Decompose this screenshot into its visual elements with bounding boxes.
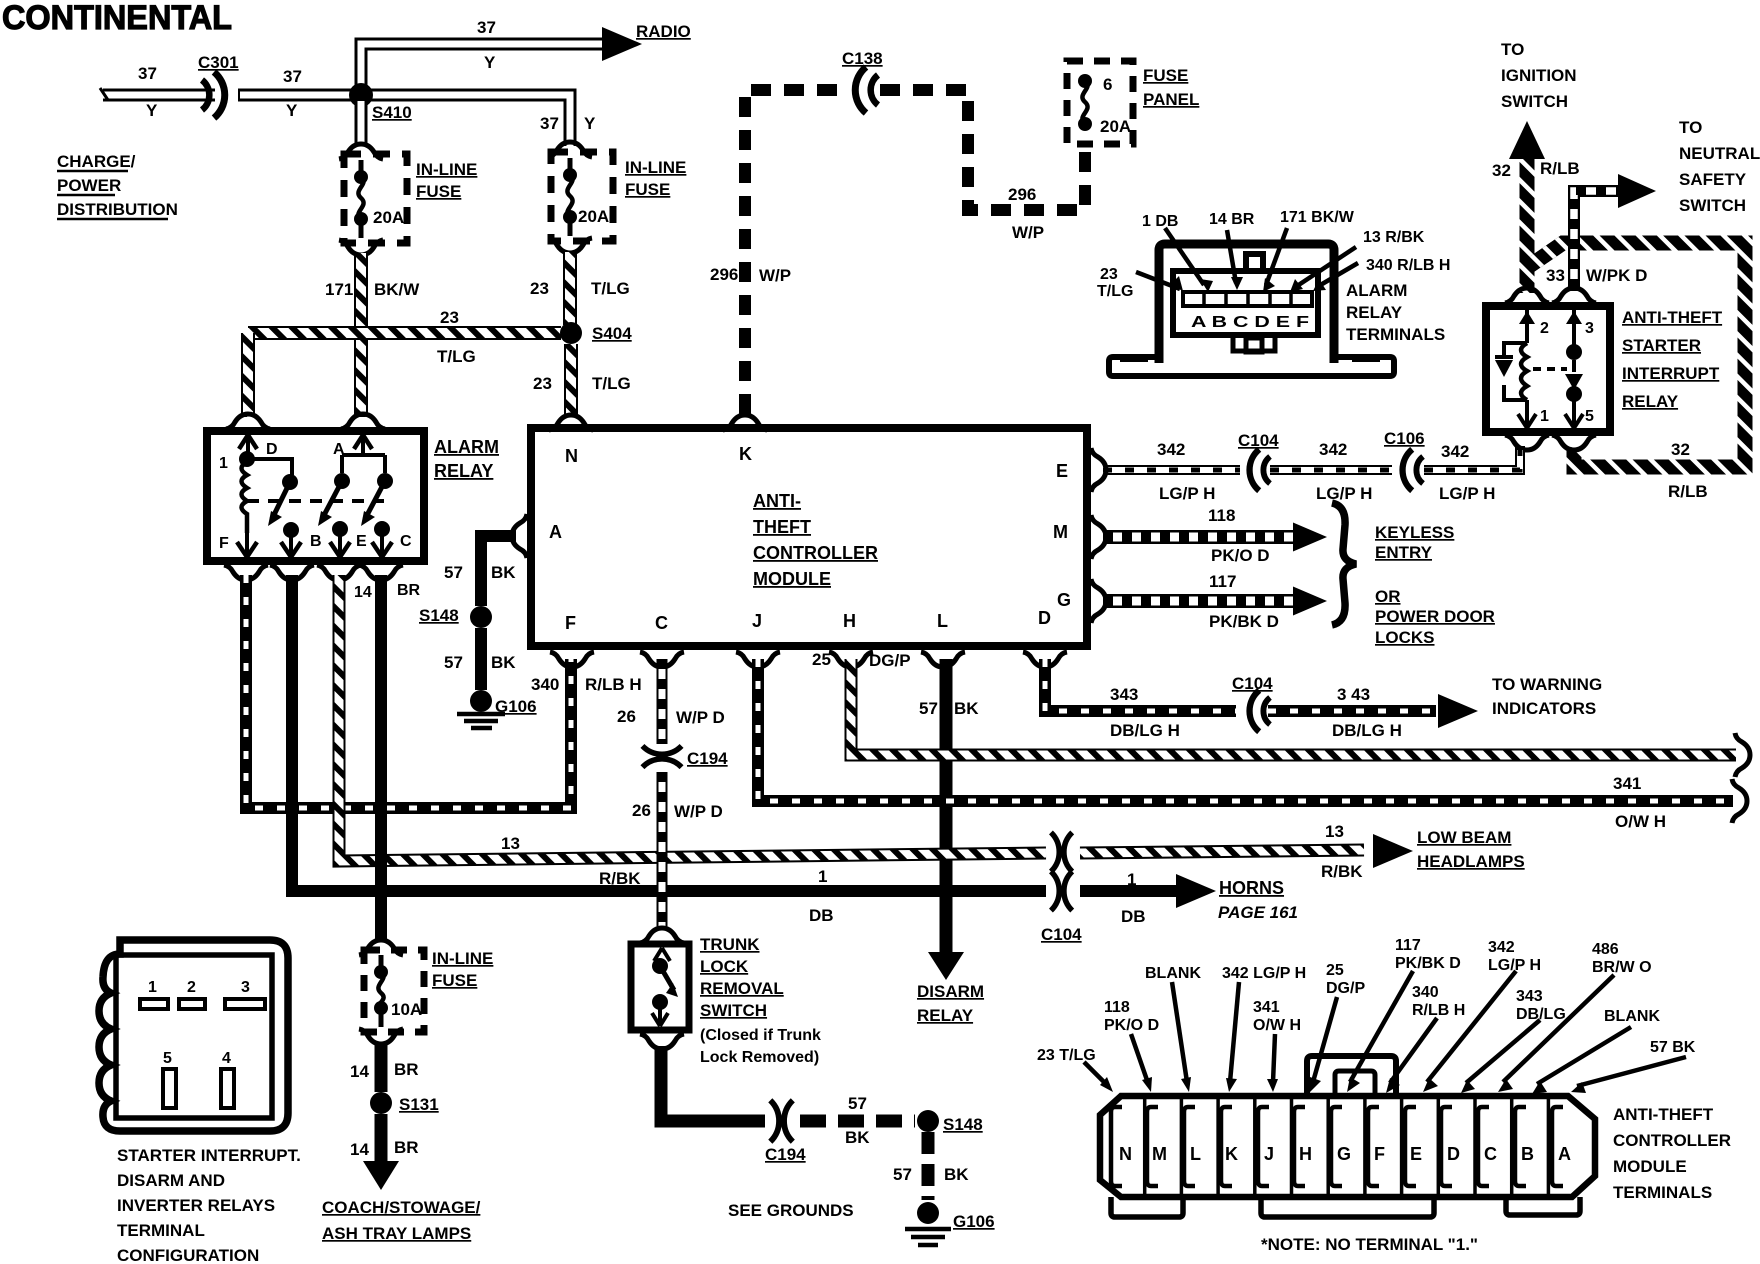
svg-text:342 LG/P H: 342 LG/P H bbox=[1222, 965, 1306, 982]
wire 14 BR fuse to S131 bbox=[375, 1044, 388, 1092]
svg-text:ANTI-THEFT: ANTI-THEFT bbox=[1613, 1105, 1714, 1124]
svg-text:4: 4 bbox=[222, 1050, 231, 1067]
svg-text:26: 26 bbox=[632, 801, 651, 820]
svg-text:5: 5 bbox=[163, 1050, 172, 1067]
terminal arrows bbox=[1084, 971, 1686, 1086]
svg-text:COACH/STOWAGE/: COACH/STOWAGE/ bbox=[322, 1198, 481, 1217]
svg-text:118: 118 bbox=[1208, 506, 1235, 525]
svg-text:343: 343 bbox=[1110, 685, 1138, 704]
svg-text:IGNITION: IGNITION bbox=[1501, 66, 1577, 85]
svg-text:R/LB H: R/LB H bbox=[1412, 1002, 1465, 1019]
svg-text:RELAY: RELAY bbox=[1346, 303, 1403, 322]
svg-text:117: 117 bbox=[1209, 572, 1236, 591]
svg-text:SWITCH: SWITCH bbox=[1679, 196, 1746, 215]
wire 33 W/PK D to neutral safety switch bbox=[1574, 174, 1656, 291]
wire 296 W/P C138 to fuse panel bbox=[880, 90, 1085, 210]
svg-text:G106: G106 bbox=[953, 1212, 995, 1231]
svg-text:6: 6 bbox=[1103, 75, 1112, 94]
svg-text:THEFT: THEFT bbox=[753, 517, 811, 537]
svg-text:S131: S131 bbox=[399, 1095, 439, 1114]
ground G106 bbox=[457, 714, 505, 728]
in-line fuse F3 10A bbox=[359, 940, 424, 1044]
svg-text:32: 32 bbox=[1492, 161, 1511, 180]
svg-text:342: 342 bbox=[1157, 440, 1185, 459]
svg-text:TERMINAL: TERMINAL bbox=[117, 1221, 205, 1240]
splice S410 bbox=[349, 83, 373, 107]
svg-text:C: C bbox=[1484, 1144, 1497, 1164]
svg-text:10A: 10A bbox=[391, 1000, 422, 1019]
svg-text:INTERRUPT: INTERRUPT bbox=[1622, 364, 1720, 383]
svg-text:5: 5 bbox=[1585, 408, 1594, 425]
svg-text:G: G bbox=[1337, 1144, 1351, 1164]
svg-text:RELAY: RELAY bbox=[1622, 392, 1679, 411]
wire 1 DB to horns arrow bbox=[1080, 874, 1216, 908]
svg-text:LG/P H: LG/P H bbox=[1159, 484, 1215, 503]
svg-text:14: 14 bbox=[354, 584, 372, 601]
svg-text:ENTRY: ENTRY bbox=[1375, 543, 1433, 562]
wire alarm relay F to module F 340 R/LB H bbox=[246, 575, 571, 808]
svg-text:23 T/LG: 23 T/LG bbox=[1037, 1047, 1096, 1064]
svg-text:C104: C104 bbox=[1232, 674, 1273, 693]
connector C194 (26) bbox=[642, 746, 681, 767]
svg-text:C194: C194 bbox=[687, 749, 728, 768]
svg-text:G106: G106 bbox=[495, 697, 537, 716]
svg-text:BK: BK bbox=[944, 1165, 969, 1184]
svg-text:13: 13 bbox=[501, 834, 520, 853]
svg-text:Y: Y bbox=[286, 101, 298, 120]
svg-text:POWER DOOR: POWER DOOR bbox=[1375, 607, 1495, 626]
wire 32 R/LB loop pin 5 to ignition feed bbox=[1528, 243, 1745, 467]
svg-text:HORNS: HORNS bbox=[1219, 878, 1284, 898]
svg-text:1: 1 bbox=[1540, 408, 1549, 425]
svg-text:S404: S404 bbox=[592, 324, 632, 343]
terminal pointer labels bbox=[1136, 228, 1358, 289]
svg-text:Y: Y bbox=[584, 114, 596, 133]
svg-text:C106: C106 bbox=[1384, 429, 1425, 448]
svg-text:CONTROLLER: CONTROLLER bbox=[1613, 1131, 1731, 1150]
svg-text:32: 32 bbox=[1671, 440, 1690, 459]
svg-text:LOCK: LOCK bbox=[700, 957, 749, 976]
svg-text:PAGE 161: PAGE 161 bbox=[1218, 903, 1298, 922]
svg-text:BK: BK bbox=[954, 699, 979, 718]
coil + diode branch bbox=[1525, 332, 1529, 428]
svg-text:SWITCH: SWITCH bbox=[1501, 92, 1568, 111]
alarm relay terminals pictorial bbox=[1109, 244, 1394, 376]
svg-text:ALARM: ALARM bbox=[434, 437, 499, 457]
wire 57 BK S148 to G106 bbox=[917, 1132, 939, 1224]
svg-text:23: 23 bbox=[530, 279, 549, 298]
svg-text:341: 341 bbox=[1253, 999, 1280, 1016]
svg-text:2: 2 bbox=[1540, 320, 1549, 337]
svg-text:SEE GROUNDS: SEE GROUNDS bbox=[728, 1201, 854, 1220]
switch E bbox=[334, 473, 350, 489]
svg-text:C194: C194 bbox=[765, 1145, 806, 1164]
svg-text:C104: C104 bbox=[1238, 431, 1279, 450]
svg-text:TRUNK: TRUNK bbox=[700, 935, 760, 954]
svg-text:L: L bbox=[1190, 1144, 1201, 1164]
svg-text:IN-LINE: IN-LINE bbox=[416, 160, 477, 179]
coil branch terminal D bbox=[239, 435, 257, 449]
mechanical link bbox=[247, 499, 384, 503]
svg-text:M: M bbox=[1053, 522, 1068, 542]
svg-text:DISARM: DISARM bbox=[917, 982, 984, 1001]
svg-text:DG/P: DG/P bbox=[869, 651, 911, 670]
connector C104 (horns) bbox=[1051, 871, 1072, 910]
svg-text:H: H bbox=[843, 611, 856, 631]
svg-text:CONFIGURATION: CONFIGURATION bbox=[117, 1246, 259, 1264]
svg-text:23: 23 bbox=[440, 308, 459, 327]
terminal brackets bbox=[1111, 1107, 1563, 1186]
wire 26 W/P D module C to C194 bbox=[657, 659, 668, 744]
wire 14 BR S131 to lamps arrow bbox=[363, 1114, 399, 1190]
svg-text:RADIO: RADIO bbox=[636, 22, 691, 41]
svg-text:E: E bbox=[1056, 461, 1068, 481]
starter interrupt relays terminal configuration pictorial bbox=[99, 940, 288, 1131]
svg-text:HEADLAMPS: HEADLAMPS bbox=[1417, 852, 1525, 871]
svg-text:SAFETY: SAFETY bbox=[1679, 170, 1747, 189]
wire S410 to fuse 2 bbox=[361, 95, 570, 146]
svg-text:ALARM: ALARM bbox=[1346, 281, 1407, 300]
wire 23 T/LG S404 to module N bbox=[564, 344, 578, 414]
wire 57 BK module A to S148 to G106 bbox=[470, 536, 516, 712]
svg-text:INDICATORS: INDICATORS bbox=[1492, 699, 1596, 718]
svg-text:37: 37 bbox=[477, 18, 496, 37]
svg-text:BLANK: BLANK bbox=[1604, 1008, 1660, 1025]
svg-text:PANEL: PANEL bbox=[1143, 90, 1199, 109]
svg-text:Y: Y bbox=[484, 53, 496, 72]
wire 23 T/LG fuse2 to S404 bbox=[563, 252, 577, 325]
svg-text:BK: BK bbox=[491, 653, 516, 672]
svg-text:TERMINALS: TERMINALS bbox=[1346, 325, 1445, 344]
svg-text:L: L bbox=[937, 611, 948, 631]
svg-text:3 43: 3 43 bbox=[1337, 685, 1370, 704]
svg-text:1 DB: 1 DB bbox=[1142, 213, 1178, 230]
svg-text:REMOVAL: REMOVAL bbox=[700, 979, 784, 998]
connector C104 (13) bbox=[1051, 832, 1072, 871]
svg-text:ANTI-: ANTI- bbox=[753, 491, 801, 511]
svg-text:25: 25 bbox=[1326, 962, 1344, 979]
svg-text:C: C bbox=[655, 613, 668, 633]
svg-text:LG/P H: LG/P H bbox=[1488, 957, 1541, 974]
svg-text:BR: BR bbox=[397, 582, 421, 599]
switch C bbox=[377, 473, 393, 489]
svg-text:296: 296 bbox=[710, 265, 738, 284]
svg-text:FUSE: FUSE bbox=[416, 182, 461, 201]
svg-text:37: 37 bbox=[283, 67, 302, 86]
svg-text:BK/W: BK/W bbox=[374, 280, 420, 299]
svg-text:TO WARNING: TO WARNING bbox=[1492, 675, 1602, 694]
svg-text:37: 37 bbox=[138, 64, 157, 83]
svg-text:57: 57 bbox=[444, 653, 463, 672]
svg-text:INVERTER RELAYS: INVERTER RELAYS bbox=[117, 1196, 275, 1215]
svg-text:CONTROLLER: CONTROLLER bbox=[753, 543, 878, 563]
svg-text:ASH TRAY LAMPS: ASH TRAY LAMPS bbox=[322, 1224, 471, 1243]
svg-text:H: H bbox=[1299, 1144, 1312, 1164]
in-line fuse F1 20A bbox=[339, 144, 407, 255]
svg-text:(Closed if Trunk: (Closed if Trunk bbox=[700, 1027, 821, 1044]
svg-text:DB/LG H: DB/LG H bbox=[1332, 721, 1402, 740]
connector C104 (342) bbox=[1250, 449, 1270, 490]
svg-text:3: 3 bbox=[1585, 320, 1594, 337]
svg-text:FUSE: FUSE bbox=[1143, 66, 1188, 85]
in-line fuse F2 20A bbox=[548, 142, 613, 253]
svg-text:A: A bbox=[1558, 1144, 1571, 1164]
svg-text:25: 25 bbox=[812, 650, 831, 669]
svg-text:W/P: W/P bbox=[759, 266, 791, 285]
svg-text:2: 2 bbox=[187, 979, 196, 996]
svg-text:R/LB: R/LB bbox=[1540, 159, 1580, 178]
wire 57 BK C194 to S148 bbox=[800, 1110, 939, 1132]
svg-text:DB/LG H: DB/LG H bbox=[1110, 721, 1180, 740]
wire 37 Y C301 to S410 bbox=[238, 89, 361, 102]
svg-text:BLANK: BLANK bbox=[1145, 965, 1201, 982]
brace keyless bbox=[1332, 503, 1356, 625]
splice S131 bbox=[370, 1092, 392, 1114]
svg-text:PK/O D: PK/O D bbox=[1211, 546, 1270, 565]
module U2 anti-theft controller module bbox=[512, 415, 1106, 667]
svg-text:A B C D E F: A B C D E F bbox=[1191, 314, 1309, 331]
svg-text:117: 117 bbox=[1395, 937, 1421, 954]
svg-text:23: 23 bbox=[533, 374, 552, 393]
ground G106 (bottom) bbox=[905, 1229, 951, 1245]
svg-text:LOCKS: LOCKS bbox=[1375, 628, 1435, 647]
svg-text:R/BK: R/BK bbox=[1321, 862, 1363, 881]
svg-text:KEYLESS: KEYLESS bbox=[1375, 523, 1454, 542]
svg-text:57: 57 bbox=[919, 699, 938, 718]
svg-text:D: D bbox=[1038, 608, 1051, 628]
svg-text:PK/BK D: PK/BK D bbox=[1209, 612, 1279, 631]
svg-text:R/BK: R/BK bbox=[599, 869, 641, 888]
svg-text:RELAY: RELAY bbox=[434, 461, 493, 481]
terminal A feed bbox=[354, 435, 372, 449]
svg-text:3: 3 bbox=[241, 979, 250, 996]
wire 171 BK/W fuse1 to alarm relay A bbox=[354, 253, 368, 417]
svg-text:Lock Removed): Lock Removed) bbox=[700, 1049, 819, 1066]
wire 1 DB alarm relay B to horns bbox=[292, 575, 1046, 891]
svg-text:Y: Y bbox=[146, 101, 158, 120]
svg-text:LOW BEAM: LOW BEAM bbox=[1417, 828, 1511, 847]
svg-text:14: 14 bbox=[350, 1140, 369, 1159]
svg-text:G: G bbox=[1057, 590, 1071, 610]
svg-text:A: A bbox=[549, 522, 562, 542]
svg-text:296: 296 bbox=[1008, 185, 1036, 204]
svg-text:37: 37 bbox=[540, 114, 559, 133]
svg-text:20A: 20A bbox=[373, 208, 404, 227]
svg-text:J: J bbox=[752, 611, 762, 631]
svg-text:W/PK D: W/PK D bbox=[1586, 266, 1647, 285]
relay K1 alarm relay bbox=[207, 414, 424, 580]
wire 37 Y feed (double line) bbox=[100, 88, 215, 100]
svg-text:340: 340 bbox=[1412, 984, 1439, 1001]
wire 341 O/W H module J to right bbox=[758, 659, 1747, 823]
anti-theft controller module terminals pictorial bbox=[1100, 1056, 1595, 1217]
wire 23 T/LG horizontal to S404 bbox=[248, 326, 561, 340]
svg-text:23: 23 bbox=[1100, 266, 1118, 283]
svg-text:14: 14 bbox=[350, 1062, 369, 1081]
svg-text:TO: TO bbox=[1679, 118, 1702, 137]
svg-text:IN-LINE: IN-LINE bbox=[432, 949, 493, 968]
wire to RADIO bbox=[361, 44, 608, 99]
svg-text:T/LG: T/LG bbox=[437, 347, 476, 366]
svg-text:342: 342 bbox=[1441, 442, 1469, 461]
svg-text:K: K bbox=[739, 444, 752, 464]
svg-text:T/LG: T/LG bbox=[591, 279, 630, 298]
svg-text:BK: BK bbox=[491, 563, 516, 582]
svg-text:R/LB H: R/LB H bbox=[585, 675, 642, 694]
wire 23 T/LG down to alarm relay D bbox=[241, 333, 255, 417]
splice S404 bbox=[560, 322, 582, 344]
svg-text:118: 118 bbox=[1104, 999, 1130, 1016]
svg-text:340: 340 bbox=[531, 675, 559, 694]
svg-text:DISTRIBUTION: DISTRIBUTION bbox=[57, 200, 178, 219]
svg-text:S148: S148 bbox=[943, 1115, 983, 1134]
svg-text:*NOTE: NO TERMINAL "1.": *NOTE: NO TERMINAL "1." bbox=[1261, 1235, 1478, 1254]
svg-text:FUSE: FUSE bbox=[432, 971, 477, 990]
svg-text:DB: DB bbox=[809, 906, 834, 925]
svg-text:486: 486 bbox=[1592, 941, 1619, 958]
svg-text:D: D bbox=[1447, 1144, 1460, 1164]
wire 26 W/P D C194 to trunk switch bbox=[657, 772, 668, 928]
wire 343 DB/LG H module D to warning indicators bbox=[1045, 659, 1478, 728]
svg-text:R/LB: R/LB bbox=[1668, 482, 1708, 501]
svg-text:LG/P H: LG/P H bbox=[1439, 484, 1495, 503]
svg-text:POWER: POWER bbox=[57, 176, 121, 195]
svg-text:340 R/LB H: 340 R/LB H bbox=[1366, 257, 1450, 274]
svg-text:BR: BR bbox=[394, 1138, 419, 1157]
svg-text:1: 1 bbox=[219, 455, 228, 472]
svg-text:C104: C104 bbox=[1041, 925, 1082, 944]
svg-text:D: D bbox=[266, 441, 278, 458]
svg-text:342: 342 bbox=[1488, 939, 1515, 956]
svg-text:S410: S410 bbox=[372, 103, 412, 122]
svg-text:TO: TO bbox=[1501, 40, 1524, 59]
svg-text:1: 1 bbox=[818, 867, 827, 886]
svg-text:MODULE: MODULE bbox=[1613, 1157, 1687, 1176]
svg-text:BR: BR bbox=[394, 1060, 419, 1079]
svg-text:DB: DB bbox=[1121, 907, 1146, 926]
svg-text:26: 26 bbox=[617, 707, 636, 726]
wire 296 W/P module K to C138 and fuse panel bbox=[745, 90, 845, 414]
wire 13 R/BK alarm relay E to low beam headlamps bbox=[339, 575, 1413, 868]
svg-text:N: N bbox=[565, 446, 578, 466]
svg-text:20A: 20A bbox=[1100, 117, 1131, 136]
svg-text:342: 342 bbox=[1319, 440, 1347, 459]
svg-text:C138: C138 bbox=[842, 49, 883, 68]
svg-text:T/LG: T/LG bbox=[1097, 283, 1133, 300]
svg-text:E: E bbox=[1410, 1144, 1422, 1164]
fuse panel bbox=[1067, 61, 1133, 144]
svg-text:OR: OR bbox=[1375, 587, 1401, 606]
svg-text:57 BK: 57 BK bbox=[1650, 1039, 1696, 1056]
svg-text:W/P: W/P bbox=[1012, 223, 1044, 242]
svg-text:1: 1 bbox=[148, 979, 157, 996]
connector C106 (342) bbox=[1403, 449, 1423, 490]
svg-text:K: K bbox=[1225, 1144, 1238, 1164]
svg-text:NEUTRAL: NEUTRAL bbox=[1679, 144, 1760, 163]
connector C301 bbox=[202, 72, 225, 118]
svg-text:57: 57 bbox=[848, 1094, 867, 1113]
svg-text:13 R/BK: 13 R/BK bbox=[1363, 229, 1425, 246]
svg-text:DISARM AND: DISARM AND bbox=[117, 1171, 225, 1190]
svg-text:O/W H: O/W H bbox=[1253, 1017, 1301, 1034]
svg-text:B: B bbox=[310, 533, 322, 550]
svg-text:341: 341 bbox=[1613, 774, 1641, 793]
svg-text:20A: 20A bbox=[578, 207, 609, 226]
svg-text:M: M bbox=[1152, 1144, 1167, 1164]
svg-text:STARTER INTERRUPT.: STARTER INTERRUPT. bbox=[117, 1146, 301, 1165]
svg-text:W/P D: W/P D bbox=[674, 802, 723, 821]
svg-text:FUSE: FUSE bbox=[625, 180, 670, 199]
svg-text:CHARGE/: CHARGE/ bbox=[57, 152, 136, 171]
svg-text:SWITCH: SWITCH bbox=[700, 1001, 767, 1020]
svg-text:BR/W O: BR/W O bbox=[1592, 959, 1652, 976]
wire 57 BK trunk switch to C194 bbox=[661, 1046, 765, 1121]
wire 342 LG/P H module E to C104 C106 to relay pin 1 bbox=[1103, 446, 1520, 470]
svg-text:DG/P: DG/P bbox=[1326, 980, 1365, 997]
svg-text:F: F bbox=[1374, 1144, 1385, 1164]
svg-text:CONTINENTAL: CONTINENTAL bbox=[2, 0, 232, 37]
svg-text:IN-LINE: IN-LINE bbox=[625, 158, 686, 177]
svg-text:E: E bbox=[356, 533, 367, 550]
wire 25 DG/P module H to right bbox=[851, 659, 1750, 777]
svg-text:W/P D: W/P D bbox=[676, 708, 725, 727]
wire 57 BK module L to disarm relay bbox=[928, 659, 964, 980]
svg-text:14 BR: 14 BR bbox=[1209, 211, 1255, 228]
svg-text:1: 1 bbox=[1127, 870, 1136, 889]
switch B bbox=[282, 474, 298, 490]
wire 14 BR alarm relay C to in-line fuse bbox=[375, 575, 387, 940]
svg-text:171 BK/W: 171 BK/W bbox=[1280, 209, 1355, 226]
svg-text:B: B bbox=[1521, 1144, 1534, 1164]
svg-text:N: N bbox=[1119, 1144, 1132, 1164]
connector C138 bbox=[855, 67, 878, 113]
trunk lock removal switch S1 bbox=[631, 928, 689, 1049]
wire S410 down to in-line fuse 1 bbox=[355, 101, 368, 146]
svg-text:F: F bbox=[219, 535, 229, 552]
svg-text:ANTI-THEFT: ANTI-THEFT bbox=[1622, 308, 1723, 327]
svg-text:S148: S148 bbox=[419, 606, 459, 625]
keyless entry wires 118 / 117 bbox=[1103, 523, 1327, 552]
svg-text:TERMINALS: TERMINALS bbox=[1613, 1183, 1712, 1202]
svg-text:J: J bbox=[1264, 1144, 1274, 1164]
svg-text:BK: BK bbox=[845, 1128, 870, 1147]
svg-text:STARTER: STARTER bbox=[1622, 336, 1701, 355]
arrow RADIO bbox=[602, 27, 642, 61]
svg-text:MODULE: MODULE bbox=[753, 569, 831, 589]
svg-text:C301: C301 bbox=[198, 53, 239, 72]
svg-text:DB/LG: DB/LG bbox=[1516, 1006, 1566, 1023]
svg-text:PK/O D: PK/O D bbox=[1104, 1017, 1159, 1034]
svg-text:C: C bbox=[400, 533, 412, 550]
anti-theft starter interrupt relay U1 bbox=[1486, 288, 1610, 450]
svg-text:T/LG: T/LG bbox=[592, 374, 631, 393]
wire 32 R/LB to ignition switch (arrow up) bbox=[1509, 121, 1545, 293]
svg-text:171: 171 bbox=[325, 280, 353, 299]
svg-text:O/W H: O/W H bbox=[1615, 812, 1666, 831]
svg-text:13: 13 bbox=[1325, 822, 1344, 841]
svg-text:F: F bbox=[565, 613, 576, 633]
contact branch bbox=[1572, 330, 1576, 428]
connector C104 (343) bbox=[1250, 690, 1270, 731]
connector C194 (57) bbox=[770, 1100, 793, 1141]
svg-text:PK/BK D: PK/BK D bbox=[1395, 955, 1461, 972]
svg-text:57: 57 bbox=[893, 1165, 912, 1184]
svg-text:RELAY: RELAY bbox=[917, 1006, 974, 1025]
svg-text:33: 33 bbox=[1546, 266, 1565, 285]
svg-text:LG/P H: LG/P H bbox=[1316, 484, 1372, 503]
svg-text:343: 343 bbox=[1516, 988, 1543, 1005]
svg-text:A: A bbox=[333, 441, 345, 458]
